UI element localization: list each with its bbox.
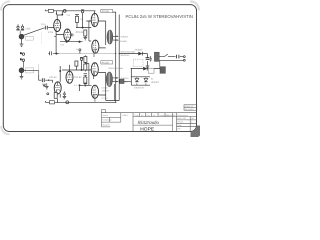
svg-text:470k: 470k — [48, 31, 54, 34]
svg-text:Suunn: Suunn — [102, 114, 108, 117]
svg-text:PCL84: PCL84 — [101, 97, 108, 100]
svg-text:LINE: LINE — [25, 28, 31, 31]
svg-text:PCL84: PCL84 — [76, 31, 84, 34]
svg-text:24.3.2001: 24.3.2001 — [185, 108, 195, 111]
svg-text:lahtomuuntaja: lahtomuuntaja — [121, 51, 136, 54]
svg-text:1M: 1M — [45, 26, 48, 29]
svg-text:NIMI1: NIMI1 — [123, 114, 129, 117]
svg-text:PCL84: PCL84 — [102, 61, 110, 64]
svg-text:Siv: Siv — [153, 114, 156, 117]
svg-text:0,1u: 0,1u — [41, 23, 46, 26]
svg-text:PCL84: PCL84 — [102, 10, 110, 13]
svg-text:katodi: katodi — [102, 86, 108, 89]
svg-text:5k/4ohm: 5k/4ohm — [121, 54, 130, 57]
svg-text:HOPE: HOPE — [140, 126, 154, 131]
svg-text:Hyv.pvm: Hyv.pvm — [102, 123, 110, 126]
svg-text:1N4007: 1N4007 — [135, 49, 144, 52]
svg-text:UF4007: UF4007 — [151, 81, 160, 84]
svg-text:kaiutin: kaiutin — [120, 40, 127, 43]
svg-text:PCL84: PCL84 — [74, 76, 82, 79]
svg-text:230V/12V: 230V/12V — [134, 86, 145, 89]
svg-text:PCL84 2x5 W STEREOVAHVISTIN: PCL84 2x5 W STEREOVAHVISTIN — [126, 14, 194, 19]
svg-text:5532/radio: 5532/radio — [138, 120, 160, 125]
svg-text:Tarkastaja: Tarkastaja — [102, 119, 112, 122]
svg-text:Check: Check — [177, 121, 183, 124]
svg-text:Pvm: Pvm — [135, 114, 139, 117]
svg-text:Trk: Trk — [141, 114, 144, 117]
svg-text:Sheet 1/1: Sheet 1/1 — [185, 105, 194, 108]
svg-text:4-8ohm: 4-8ohm — [120, 36, 128, 39]
svg-text:PCL84: PCL84 — [49, 76, 57, 79]
svg-text:Piirustusnro: Piirustusnro — [177, 114, 188, 117]
svg-text:Hyv: Hyv — [147, 114, 150, 117]
svg-text:Rev 1 OK: Rev 1 OK — [177, 117, 186, 120]
svg-text:lahtomuuntaja: lahtomuuntaja — [109, 67, 124, 70]
